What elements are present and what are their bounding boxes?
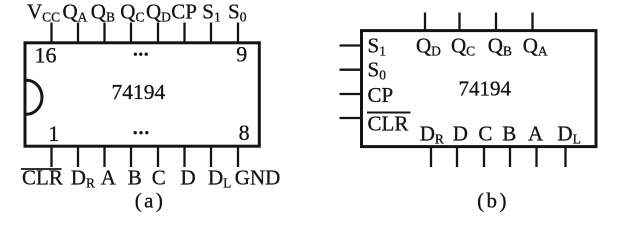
svg-text:74194: 74194 [112,80,166,104]
svg-text:C: C [478,122,492,146]
svg-text:S0: S0 [368,58,387,83]
svg-text:CP: CP [171,0,197,24]
pin 6 wire (D) [183,147,185,167]
pin-1 index notch [27,80,42,114]
svg-text:D: D [453,122,468,146]
bottom pin wire DR [430,147,432,168]
svg-text:QB: QB [91,0,115,25]
svg-text:S1: S1 [202,0,220,25]
svg-text:QA: QA [523,33,548,58]
svg-text:DL: DL [208,166,231,191]
pin 4 wire (B) [130,147,132,167]
svg-text:74194: 74194 [459,77,512,101]
svg-text:D: D [181,166,196,190]
bottom pin wire C [483,147,485,168]
svg-text:(a): (a) [135,189,166,213]
svg-text:QD: QD [146,0,171,25]
svg-text:9: 9 [236,41,247,66]
pin 2 wire (DR) [77,147,79,167]
IC U1 body (74194 DIP package, figure a) [25,43,259,146]
svg-text:DR: DR [71,166,95,191]
pin 11 wire (CP) [183,23,185,43]
svg-text:A: A [528,122,544,146]
left pin wire S0 [340,69,362,71]
bottom pin wire B [509,147,511,168]
pin 13 wire (QC) [130,23,132,43]
IC U1 body (74194 logic symbol, figure b) [362,31,597,147]
svg-text:A: A [101,166,117,190]
left pin wire S1 [340,44,362,46]
svg-text:QA: QA [63,0,88,25]
overline for CLR (figure b) [367,112,411,114]
svg-text:B: B [128,166,142,190]
pin 8 wire (GND) [237,147,239,167]
pin 5 wire (C) [157,147,159,167]
ellipsis dots bottom row [134,131,149,134]
pin 15 wire (QA) [77,23,79,43]
top pin wire QA [531,13,533,31]
left pin wire CLR [340,117,362,119]
svg-text:GND: GND [235,166,280,190]
pin 12 wire (QD) [157,23,159,43]
bottom pin wire D [456,147,458,168]
svg-text:16: 16 [35,43,57,68]
svg-text:DR: DR [420,122,444,147]
top pin wire QD [424,13,426,31]
svg-text:8: 8 [239,120,250,145]
svg-text:1: 1 [48,121,59,146]
pin 14 wire (QB) [103,23,105,43]
top pin wire QB [495,13,497,31]
bottom pin wire DL [564,147,566,168]
svg-text:QB: QB [488,33,512,58]
svg-text:QC: QC [451,33,475,58]
svg-text:CP: CP [368,83,394,107]
svg-text:S0: S0 [228,0,247,25]
ellipsis dots top row [134,53,148,56]
svg-text:QD: QD [416,33,441,58]
svg-text:S1: S1 [368,33,386,58]
svg-text:QC: QC [120,0,144,25]
svg-text:B: B [502,122,516,146]
pin 9 wire (S0) [237,23,239,43]
pin 1 wire (CLR) [50,147,52,167]
svg-text:CLR: CLR [368,112,409,136]
pin 16 wire (Vcc) [50,23,52,43]
svg-text:(b): (b) [477,188,509,212]
left pin wire CP [340,93,362,95]
svg-text:C: C [152,166,166,190]
overline for CLR [21,168,62,170]
top pin wire QC [458,13,460,31]
svg-text:VCC: VCC [27,0,60,25]
pin 7 wire (DL) [210,147,212,167]
pin 10 wire (S1) [210,23,212,43]
pin 3 wire (A) [103,147,105,167]
svg-text:DL: DL [557,122,580,147]
bottom pin wire A [535,147,537,168]
